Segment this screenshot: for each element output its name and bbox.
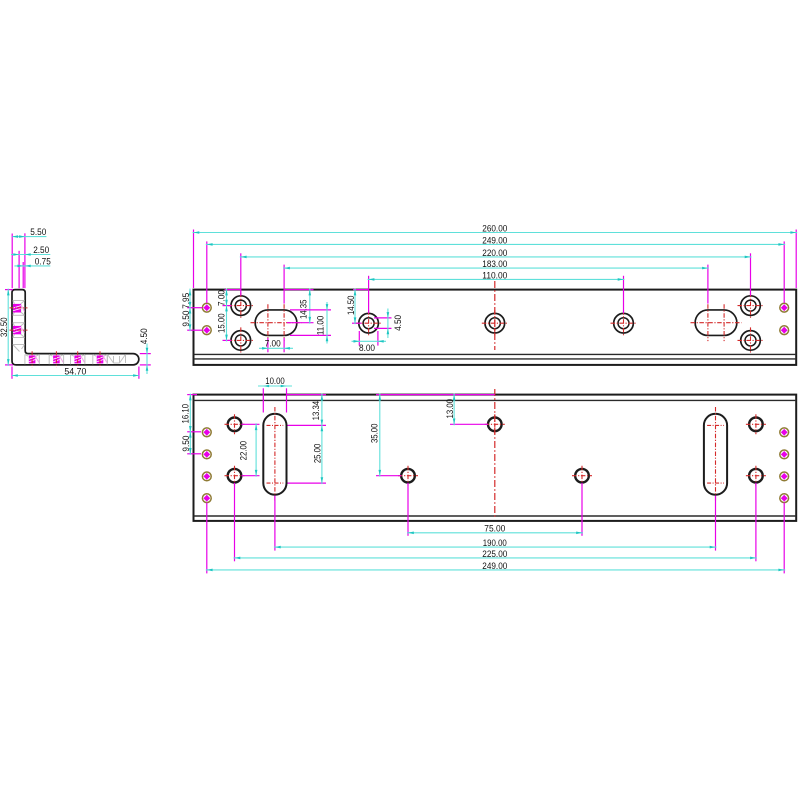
svg-text:183.00: 183.00 bbox=[482, 259, 507, 269]
extension ticks 7.00 15.00 bbox=[225, 289, 241, 291]
dim 249.00 bbox=[206, 243, 785, 245]
extension tick 14.50 top edge bbox=[353, 289, 369, 291]
pin holes left column bbox=[202, 428, 211, 437]
dim 32.50 bbox=[7, 289, 9, 366]
svg-text:16.10: 16.10 bbox=[181, 404, 191, 424]
svg-text:190.00: 190.00 bbox=[483, 538, 507, 548]
dim 2.50 bbox=[11, 254, 50, 256]
pin hole left top bbox=[202, 303, 211, 312]
extension lines 10.00 bbox=[262, 388, 264, 412]
dim 8.00 bbox=[352, 340, 387, 342]
dim 110.00 bbox=[368, 278, 625, 280]
dim 75.00 bbox=[407, 532, 583, 534]
slot left centerlines bbox=[274, 407, 276, 502]
extension ticks 22.00 bbox=[242, 423, 260, 425]
dim 7.00 vertical bbox=[226, 289, 228, 307]
dim 25.00 bbox=[321, 424, 323, 484]
bottom plate bend line 2 bbox=[194, 515, 797, 517]
svg-text:14.50: 14.50 bbox=[346, 296, 356, 316]
svg-text:75.00: 75.00 bbox=[484, 524, 505, 534]
svg-text:110.00: 110.00 bbox=[482, 271, 507, 281]
slot left bottom plate bbox=[263, 414, 286, 495]
svg-text:35.00: 35.00 bbox=[370, 424, 380, 444]
hole mid right bbox=[575, 469, 589, 483]
svg-text:8.00: 8.00 bbox=[359, 343, 375, 353]
extension lines 4.50 hole bbox=[374, 317, 392, 319]
extension ticks 32.50 bbox=[5, 289, 13, 291]
slot right bottom plate bbox=[704, 414, 727, 495]
extension lines bottom dims bbox=[407, 483, 409, 536]
svg-text:25.00: 25.00 bbox=[313, 444, 323, 464]
svg-text:9.50: 9.50 bbox=[181, 436, 191, 452]
dim 15.00 bbox=[226, 305, 228, 342]
counterbored hole right top bbox=[741, 296, 761, 316]
svg-text:225.00: 225.00 bbox=[482, 549, 507, 559]
extension lines top dims left bbox=[193, 230, 195, 289]
extension tick 25.00 bbox=[288, 482, 327, 484]
dim 9.50 top plate bbox=[189, 307, 191, 332]
section hatch vertical leg hole 1 bbox=[13, 304, 21, 313]
svg-text:220.00: 220.00 bbox=[482, 248, 507, 258]
dim 7.95 bbox=[189, 289, 191, 309]
dim 249.00 bottom bbox=[206, 569, 785, 571]
dim 183.00 bbox=[283, 267, 709, 269]
pin hole left bottom bbox=[202, 326, 211, 335]
dim 13.00 bbox=[453, 394, 455, 426]
section hatch horizontal leg holes bbox=[29, 355, 36, 363]
top plate bend line 2 bbox=[194, 358, 797, 360]
section hatch vertical leg hole 2 bbox=[13, 326, 21, 334]
svg-text:7.00: 7.00 bbox=[265, 339, 281, 349]
svg-text:5.50: 5.50 bbox=[30, 227, 46, 237]
centerline vertical leg hole 1 bbox=[10, 307, 28, 309]
slot left top plate bbox=[255, 310, 297, 336]
extension lines 7.00 slot bbox=[267, 338, 269, 352]
counterbored hole right bottom bbox=[741, 331, 761, 351]
svg-text:22.00: 22.00 bbox=[239, 441, 249, 461]
svg-text:4.50: 4.50 bbox=[139, 328, 149, 344]
svg-text:7.95: 7.95 bbox=[181, 293, 191, 309]
svg-text:9.50: 9.50 bbox=[181, 311, 191, 327]
extension lines 8.00 bbox=[358, 331, 360, 346]
extension lines 54.70 bbox=[11, 367, 13, 379]
top plate bend line 1 bbox=[194, 353, 797, 355]
svg-text:11.00: 11.00 bbox=[315, 316, 325, 336]
dim 22.00 bbox=[255, 423, 257, 476]
hole center top bbox=[488, 418, 502, 432]
extension lines 5.50 2.50 0.75 bbox=[11, 234, 13, 289]
mid hole B center bbox=[485, 313, 505, 333]
dim 11.00 bbox=[326, 302, 328, 344]
dim 225.00 bbox=[234, 557, 757, 559]
svg-text:54.70: 54.70 bbox=[64, 366, 86, 376]
svg-text:10.00: 10.00 bbox=[265, 376, 285, 386]
pin holes right column bbox=[780, 428, 789, 437]
svg-text:13.00: 13.00 bbox=[445, 399, 455, 419]
dim 4.50 hole bbox=[387, 309, 389, 339]
dim 5.50 bbox=[12, 236, 46, 238]
hidden hole lines horizontal leg bbox=[24, 354, 26, 364]
svg-text:260.00: 260.00 bbox=[482, 224, 507, 234]
dim 35.00 bbox=[379, 394, 381, 477]
svg-text:7.00: 7.00 bbox=[216, 290, 226, 306]
svg-text:2.50: 2.50 bbox=[33, 245, 49, 255]
svg-text:15.00: 15.00 bbox=[216, 313, 226, 333]
centerlines horizontal leg holes bbox=[31, 351, 33, 367]
extension ticks 16.10 9.50 left bbox=[187, 394, 197, 396]
hole left top bbox=[228, 418, 242, 432]
vertical centerline top plate bbox=[494, 281, 496, 350]
hole mid left bbox=[401, 469, 415, 483]
svg-text:4.50: 4.50 bbox=[393, 315, 403, 331]
slot right centerlines bbox=[715, 407, 717, 502]
svg-text:249.00: 249.00 bbox=[482, 236, 507, 246]
mid hole C bbox=[614, 313, 634, 333]
side view L-bracket outline bbox=[12, 290, 139, 365]
dim 260.00 bbox=[193, 232, 798, 234]
dim 7.00 slot bbox=[259, 347, 293, 349]
dim 14.35 bbox=[309, 289, 311, 324]
top plate outline bbox=[194, 290, 797, 365]
svg-text:249.00: 249.00 bbox=[482, 561, 507, 571]
extension ticks 7.95 9.50 left bbox=[187, 307, 202, 309]
hole left bottom bbox=[228, 469, 242, 483]
dim 54.70 bbox=[12, 375, 139, 377]
pin hole right top bbox=[780, 303, 789, 312]
bottom plate outline bbox=[194, 395, 797, 521]
extension tick 14.35 top edge bbox=[284, 289, 314, 291]
svg-text:32.50: 32.50 bbox=[0, 317, 9, 337]
pin hole right bottom bbox=[780, 326, 789, 335]
bottom plate bend line 1 bbox=[194, 399, 797, 401]
extension tick 13.00 bbox=[450, 423, 488, 425]
extension tick 35.00 top edge bbox=[376, 394, 495, 396]
svg-text:13.34: 13.34 bbox=[311, 401, 321, 421]
counterbored hole left top bbox=[231, 296, 251, 316]
dim 4.50 side view bbox=[146, 344, 148, 375]
dim 0.75 bbox=[14, 265, 50, 267]
mid hole A bbox=[359, 313, 379, 333]
hole right top bbox=[749, 418, 763, 432]
counterbored hole left bottom bbox=[231, 331, 251, 351]
extension lines top dims right bbox=[795, 230, 797, 289]
centerline vertical leg hole 2 bbox=[10, 329, 28, 331]
svg-text:0.75: 0.75 bbox=[35, 257, 51, 267]
dim 10.00 bbox=[258, 385, 292, 387]
extension ticks 11.00 bbox=[290, 309, 331, 311]
slot right top plate bbox=[695, 310, 737, 336]
dim 9.50 bottom plate bbox=[189, 431, 191, 455]
dim 16.10 bbox=[189, 394, 191, 433]
extension lines 4.50 side view bbox=[140, 353, 151, 355]
hole right bottom bbox=[749, 469, 763, 483]
hidden hole lines vertical leg bbox=[13, 300, 25, 302]
dim 14.50 bbox=[354, 289, 356, 325]
dim 190.00 bbox=[274, 546, 717, 548]
vertical centerline bottom plate bbox=[494, 389, 496, 518]
dim 220.00 bbox=[240, 256, 752, 258]
dim 13.34 bbox=[321, 394, 323, 427]
slot right centerlines bbox=[691, 322, 742, 324]
extension tick 13.34 top edge bbox=[287, 394, 327, 396]
slot left centerlines bbox=[251, 322, 302, 324]
